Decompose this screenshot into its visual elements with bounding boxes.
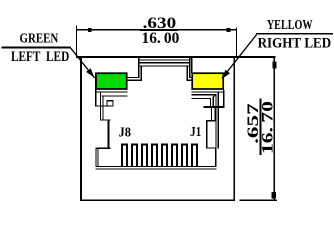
right lower step outward: [206, 147, 217, 148]
horizontal dimension line: [76, 29, 237, 30]
horizontal dimension extension line left: [76, 25, 77, 58]
right housing line C2: [191, 98, 210, 99]
contact pin 3: [141, 144, 148, 167]
yellow leader line: [222, 35, 257, 79]
contact pin 2: [131, 144, 138, 167]
jack body bottom edge: [80, 199, 235, 201]
right wall from housing b: [218, 92, 219, 149]
contact pin 6: [171, 144, 178, 167]
right housing right border extension: [223, 90, 224, 108]
yellow LED window: [192, 73, 223, 89]
green leader line: [71, 48, 95, 78]
left step upper: [127, 77, 139, 78]
left inner vertical pair a: [100, 92, 101, 121]
green LED window: [96, 73, 127, 89]
top center tab line 4: [138, 65, 190, 66]
contact shelf lower line: [95, 168, 216, 169]
left housing line E: [95, 105, 114, 106]
vertical dimension arrow square bottom: [272, 192, 277, 199]
right wall from housing a: [215, 94, 216, 149]
right descender vertical: [206, 120, 207, 149]
tab right outer vertical: [189, 57, 190, 79]
tab left outer vertical: [138, 57, 139, 79]
horizontal dimension extension line right: [236, 27, 237, 58]
left inner vertical pair b: [102, 95, 103, 120]
right chamfer at line B end: [213, 95, 216, 98]
right u-slot vertical a: [211, 106, 212, 121]
right housing line A: [191, 92, 224, 93]
contact pin 7: [181, 144, 188, 167]
right step bar: [206, 120, 216, 121]
green leader arrowhead: [86, 68, 94, 77]
vertical dimension line: [274, 57, 275, 201]
contact pin 4: [151, 144, 158, 167]
left step to center: [100, 119, 110, 120]
left notch right side: [113, 100, 114, 105]
svg-text:GREEN: GREEN: [20, 30, 59, 45]
left notch left side: [107, 100, 108, 105]
left lower wall pair a: [95, 148, 96, 167]
contact shelf upper line: [95, 166, 216, 167]
top center tab line 2: [138, 59, 190, 60]
svg-text:16. 00: 16. 00: [142, 30, 180, 47]
right lower wall to shelf: [215, 147, 217, 166]
bottom dimension extension line: [240, 200, 277, 202]
jack body left edge: [80, 56, 82, 201]
contact pin 8: [191, 144, 198, 167]
right notch vertical W1: [213, 97, 214, 107]
right step upper: [189, 77, 192, 78]
right housing line B: [191, 94, 215, 95]
top center tab line 3: [138, 62, 190, 64]
svg-text:16. 70: 16. 70: [259, 101, 276, 154]
left housing line B: [102, 95, 128, 96]
yellow leader arrowhead: [222, 70, 230, 79]
green label underline: [2, 47, 71, 49]
right drop vertical to yellow led: [191, 57, 192, 74]
svg-text:J1: J1: [190, 124, 202, 139]
contact pin 5: [161, 144, 168, 167]
jack body right edge: [233, 56, 235, 201]
horizontal dimension arrow square right: [227, 28, 231, 32]
right u-slot vertical b: [215, 106, 216, 121]
yellow label underline: [256, 33, 333, 35]
right notch vertical W2: [210, 98, 211, 107]
vertical dimension fraction bar: [259, 99, 261, 156]
svg-text:YELLOW: YELLOW: [267, 17, 313, 32]
right housing line E2: [203, 106, 224, 108]
horizontal dimension arrow square left: [88, 28, 92, 32]
horizontal dimension fraction bar thick segment: [140, 29, 178, 31]
right step lower: [187, 80, 192, 81]
left notch top: [107, 100, 114, 101]
left LED housing left border extension: [95, 72, 97, 106]
left housing line A: [95, 92, 128, 93]
left step lower: [127, 80, 142, 81]
left lower wall pair b: [98, 148, 99, 167]
tab left inner vertical: [141, 65, 142, 81]
svg-text:RIGHT LED: RIGHT LED: [258, 35, 332, 51]
jack body outer outline: top edge (with flange + right extension): [76, 56, 275, 58]
left lower step outward: [95, 148, 110, 149]
svg-text:LEFT LED: LEFT LED: [11, 49, 69, 65]
svg-text:J8: J8: [119, 124, 132, 139]
left wall vertical: [108, 119, 110, 148]
tab right inner vertical: [187, 65, 188, 81]
contact pin 1: [121, 144, 128, 167]
vertical dimension arrow square top: [273, 62, 277, 69]
